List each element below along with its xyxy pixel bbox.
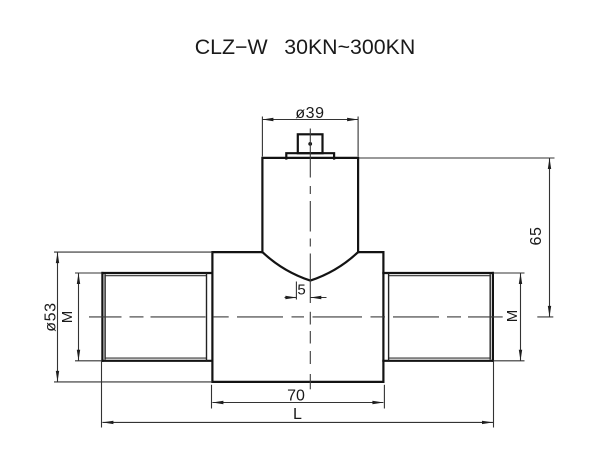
main block body bbox=[212, 252, 383, 382]
dimension ø53 bbox=[43, 252, 213, 382]
dimension M right rod thread bbox=[494, 273, 525, 361]
sensing column bbox=[262, 158, 358, 252]
right threaded rod bbox=[383, 273, 493, 361]
dimension ø39 bbox=[262, 105, 358, 157]
svg-text:CLZ−W 30KN~300KN: CLZ−W 30KN~300KN bbox=[195, 36, 416, 59]
svg-text:5: 5 bbox=[297, 282, 305, 299]
svg-text:M: M bbox=[504, 310, 521, 323]
svg-text:70: 70 bbox=[287, 388, 305, 405]
left threaded rod bbox=[102, 273, 212, 361]
dimension M left rod thread bbox=[59, 273, 102, 361]
dimension 70 bbox=[212, 385, 385, 409]
dimension 5 V point offset bbox=[285, 282, 327, 300]
svg-text:M: M bbox=[59, 311, 76, 324]
button flange bbox=[286, 153, 334, 158]
horizontal centerline bbox=[89, 316, 553, 318]
svg-text:L: L bbox=[293, 406, 302, 423]
svg-text:65: 65 bbox=[528, 227, 545, 246]
load button bbox=[298, 134, 323, 153]
column relief arcs to V point bbox=[262, 252, 358, 281]
vertical centerline of column bbox=[309, 129, 311, 390]
dimension 65 bbox=[359, 158, 555, 317]
svg-text:ø39: ø39 bbox=[295, 105, 324, 122]
dimension L bbox=[102, 362, 494, 428]
svg-text:ø53: ø53 bbox=[43, 302, 60, 331]
button center dot bbox=[308, 142, 312, 146]
